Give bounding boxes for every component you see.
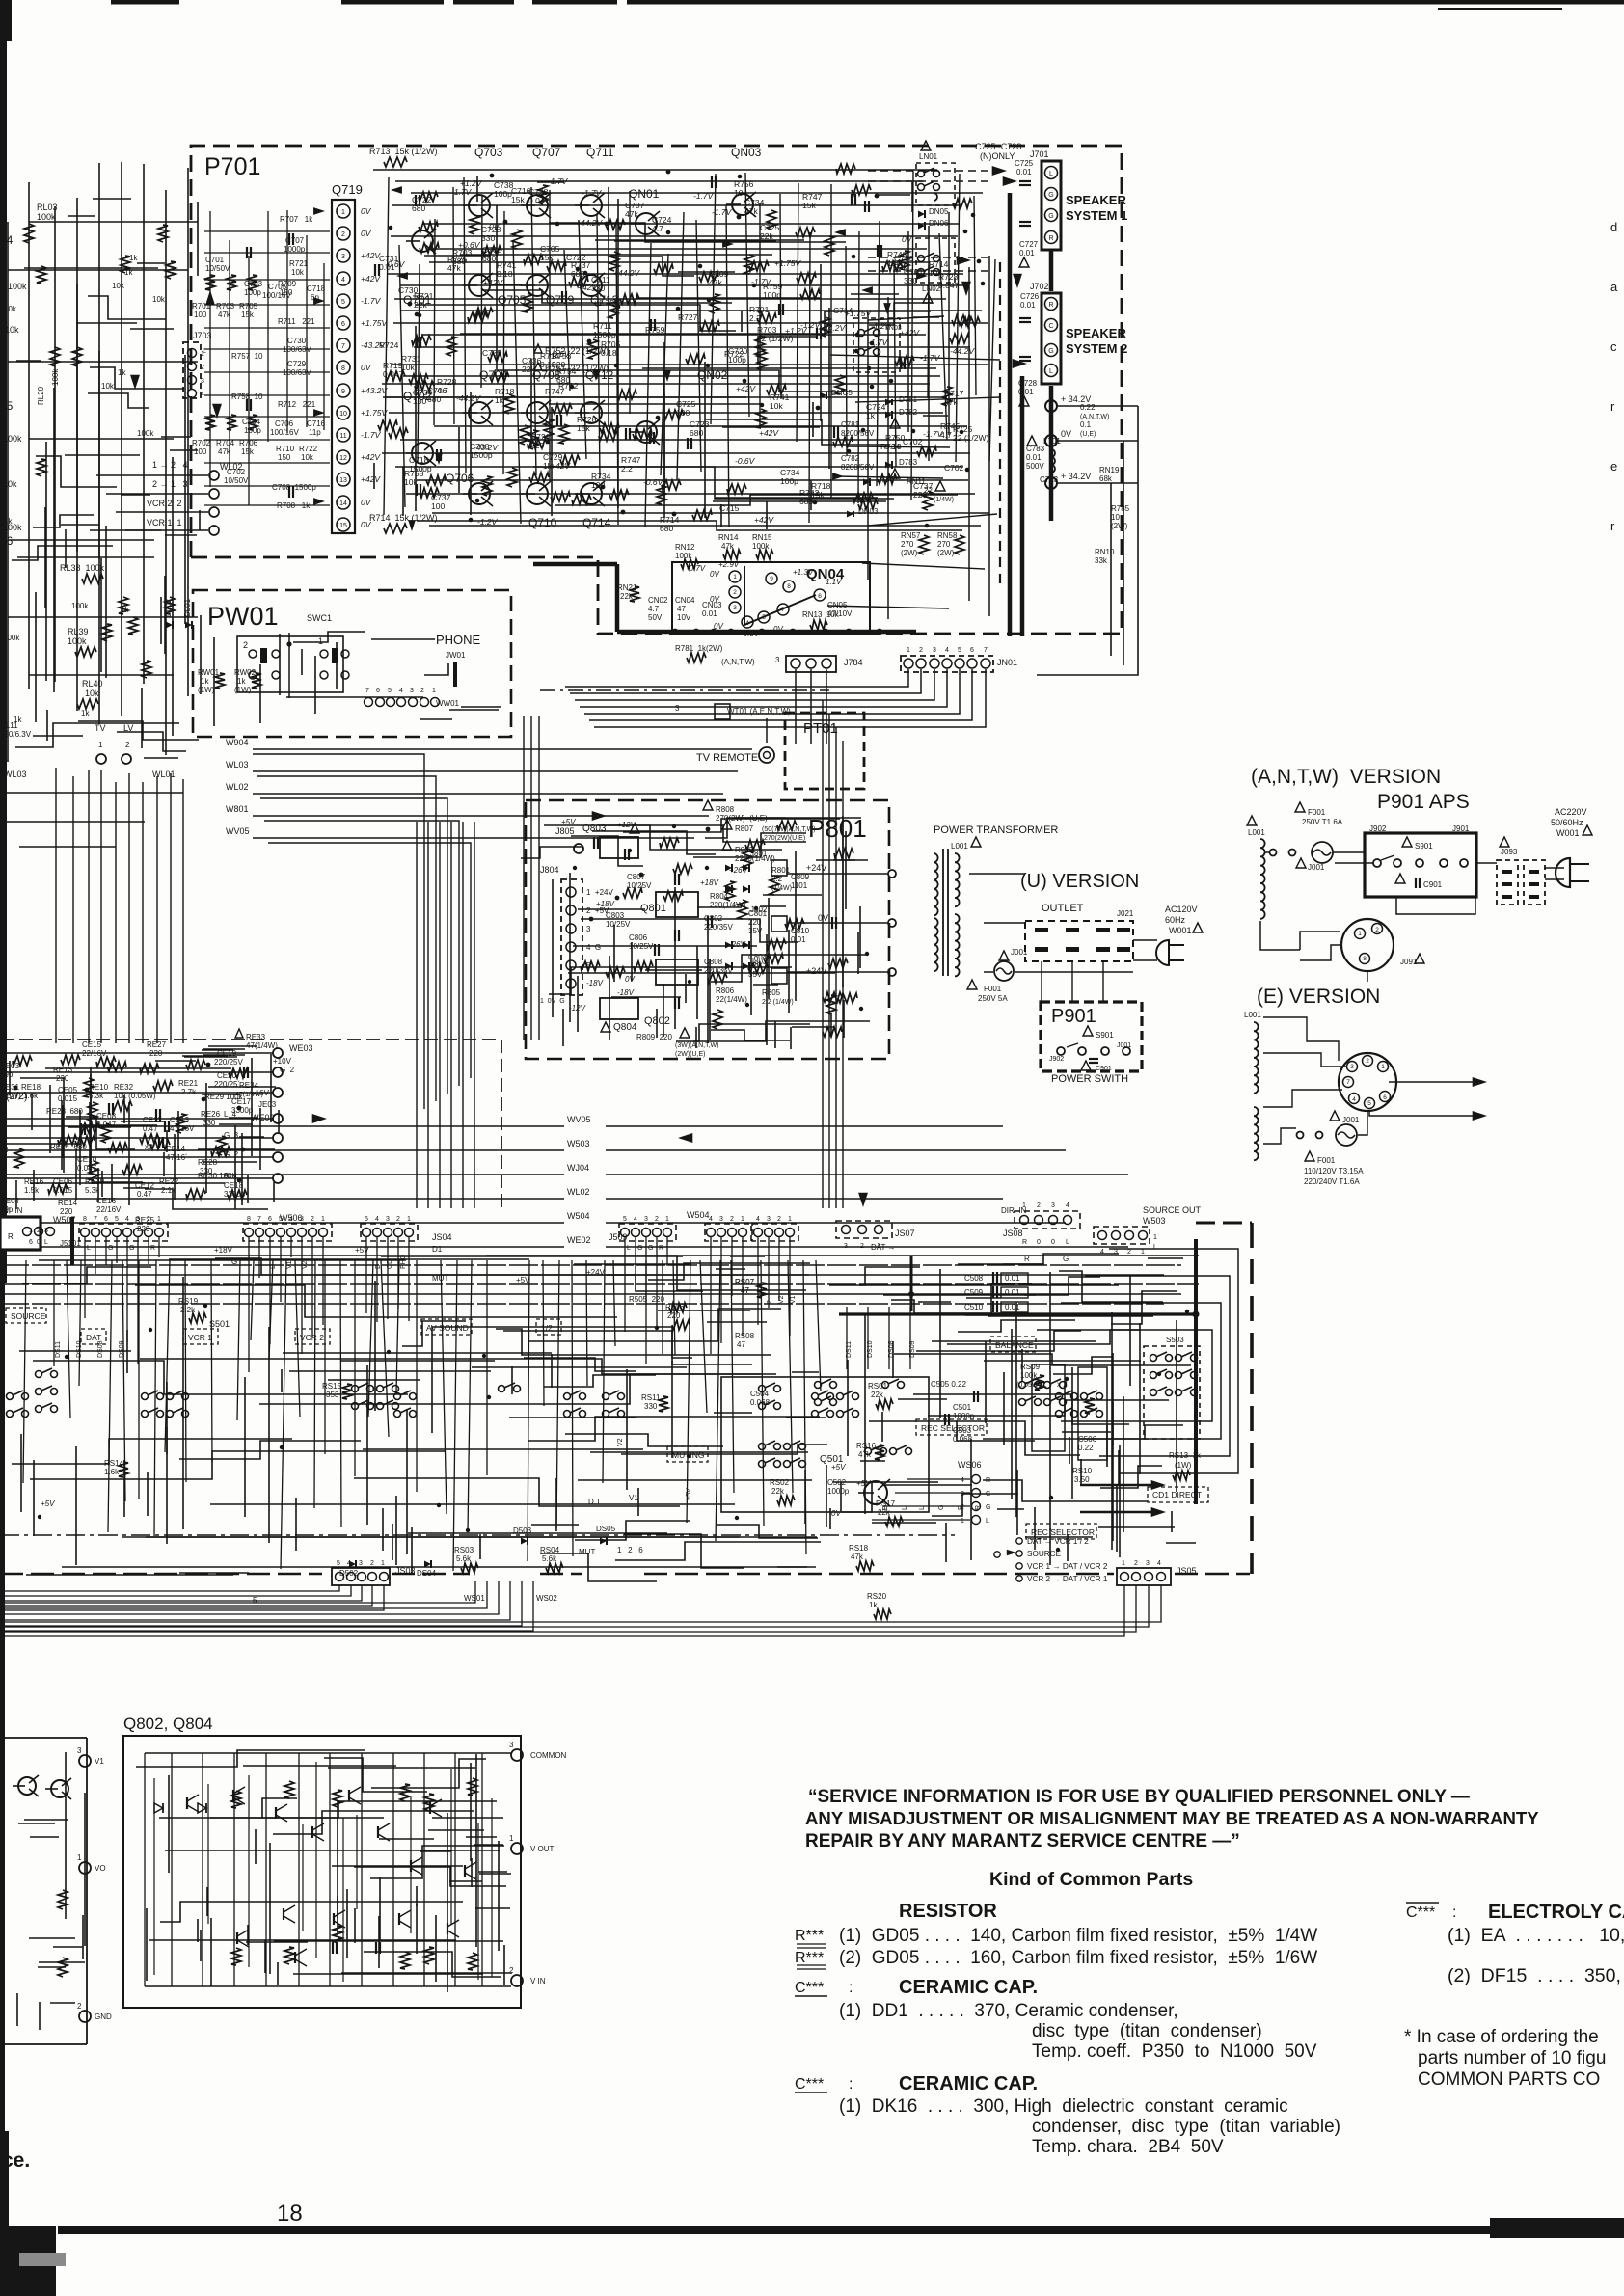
svg-text:R806: R806 [716,986,735,995]
svg-text:J804: J804 [540,865,559,875]
svg-text:WL03: WL03 [4,770,27,779]
svg-text:0V: 0V [361,498,372,507]
svg-text:-1.7V: -1.7V [582,188,603,198]
svg-text:10k: 10k [291,268,305,277]
svg-text:2: 2 [919,647,923,654]
svg-text:R809 220: R809 220 [636,1033,672,1041]
svg-text:Q802, Q804: Q802, Q804 [123,1715,213,1733]
svg-text:J001: J001 [1117,1042,1131,1049]
svg-text:6: 6 [970,647,974,654]
svg-text:4: 4 [1157,1560,1161,1567]
svg-text:2: 2 [1366,1058,1369,1065]
svg-text:DAT →: DAT → [871,1243,895,1252]
svg-text:1: 1 [407,1216,411,1223]
svg-text:WL03: WL03 [226,760,249,770]
svg-text:22k: 22k [771,1487,785,1496]
svg-text:RS10: RS10 [1072,1467,1093,1475]
svg-text:10/25V: 10/25V [627,881,652,890]
svg-text:POWER TRANSFORMER: POWER TRANSFORMER [934,824,1058,836]
svg-text:VCR 2 2: VCR 2 2 [147,499,182,508]
svg-text:7: 7 [94,1216,97,1223]
svg-text:4: 4 [1066,1202,1069,1209]
svg-text:1: 1 [509,1834,514,1843]
svg-text:3: 3 [775,656,780,664]
svg-text:6: 6 [341,321,345,328]
svg-text:1k: 1k [14,716,22,724]
svg-text:4: 4 [347,1560,351,1567]
svg-text:10k: 10k [929,268,942,278]
svg-text:7: 7 [781,607,785,613]
svg-text:F001: F001 [984,985,1002,993]
svg-text:RS20: RS20 [867,1592,887,1601]
svg-text:L001: L001 [951,842,968,851]
svg-text:L: L [1049,368,1053,375]
svg-text:RN10: RN10 [1095,548,1115,556]
svg-text:1: 1 [1153,1234,1157,1241]
svg-text:a: a [1610,280,1618,294]
svg-text:CERAMIC CAP.: CERAMIC CAP. [899,2073,1038,2094]
svg-text:WT01 (A,E,N,T,W): WT01 (A,E,N,T,W) [727,707,791,716]
svg-text:1.6k: 1.6k [104,1468,120,1476]
svg-text:Q804: Q804 [613,1022,637,1033]
svg-text:100p: 100p [244,288,261,297]
svg-text:J902: J902 [1369,824,1387,833]
svg-text:L: L [44,1239,48,1246]
svg-text:R: R [150,1245,155,1252]
svg-text:C714: C714 [833,306,853,315]
svg-text:2: 2 [777,1216,781,1223]
svg-text:0.01: 0.01 [379,262,395,272]
svg-text:ELECTROLY CA: ELECTROLY CA [1488,1902,1624,1923]
svg-text:RE27: RE27 [147,1040,167,1049]
svg-text:3: 3 [136,1216,140,1223]
svg-text:2: 2 [341,231,345,238]
svg-text:10k: 10k [3,479,17,489]
svg-text:(A,N,T,W): (A,N,T,W) [1080,414,1109,420]
svg-text:G: G [637,1245,642,1252]
svg-text:+1.75V: +1.75V [361,318,389,328]
svg-text:+42V: +42V [361,452,381,462]
svg-text:G: G [108,1245,113,1252]
svg-text:RS08: RS08 [735,1332,755,1340]
svg-text:150: 150 [280,288,293,297]
svg-text:DN03: DN03 [858,507,879,516]
svg-text:D784: D784 [876,475,895,484]
svg-text:DS08: DS08 [97,1340,104,1358]
svg-text:1k: 1k [237,677,246,686]
svg-text:3: 3 [77,1746,82,1755]
svg-text:W001: W001 [1169,926,1192,935]
svg-text:RN15: RN15 [752,533,772,542]
svg-text:0V: 0V [1061,429,1071,439]
svg-text:0: 0 [1051,1239,1055,1246]
svg-text:-1.7V: -1.7V [361,430,382,440]
svg-text:VCR 2: VCR 2 [300,1333,324,1342]
svg-text:22: 22 [924,486,933,495]
svg-text:10/25V: 10/25V [606,920,631,929]
svg-text:CN02: CN02 [648,596,668,605]
svg-text:WW01: WW01 [436,699,460,708]
svg-text:-1.7V: -1.7V [451,187,473,197]
svg-text:5: 5 [388,688,392,694]
svg-text:VO: VO [95,1864,106,1873]
svg-text:0.01: 0.01 [1016,168,1032,176]
svg-text:CE17: CE17 [231,1097,252,1106]
svg-text:47: 47 [677,605,686,613]
svg-text:R721: R721 [289,259,309,268]
svg-text:0.1: 0.1 [1080,420,1092,429]
svg-text:SWC1: SWC1 [307,613,332,623]
svg-text:WJ04: WJ04 [567,1163,589,1173]
svg-text:CN04: CN04 [675,596,695,605]
svg-text:c: c [1610,339,1617,354]
svg-text:15k: 15k [241,447,255,456]
svg-text:Temp. chara. 2B4 50V: Temp. chara. 2B4 50V [1032,2137,1224,2157]
svg-text:SYSTEM 1: SYSTEM 1 [1066,208,1127,223]
svg-text:10k: 10k [152,295,166,304]
svg-text:1: 1 [1022,1202,1026,1209]
svg-text:RS01: RS01 [868,1382,888,1391]
svg-text:R: R [1048,302,1053,309]
svg-text:RS07: RS07 [735,1278,755,1286]
svg-text:0.47: 0.47 [137,1190,152,1199]
svg-text:0V: 0V [818,913,828,923]
svg-text:F001: F001 [1308,808,1326,817]
svg-text:RN19: RN19 [1099,466,1120,474]
svg-text:QN01: QN01 [629,187,660,201]
svg-text:Q719: Q719 [332,182,363,197]
svg-text:47k: 47k [851,1553,864,1561]
svg-text:1: 1 [318,636,323,646]
svg-text:+ 34.2V: + 34.2V [1061,472,1091,481]
svg-text:JW01: JW01 [446,651,466,660]
svg-text:4: 4 [756,1216,760,1223]
svg-text:06: 06 [0,534,14,548]
svg-text:(1) GD05 . . . . 140, Carbon: (1) GD05 . . . . 140, Carbon film fixed … [839,1926,1317,1946]
svg-text:d: d [1610,220,1617,234]
svg-text:COMMON PARTS CO: COMMON PARTS CO [1418,2069,1600,2090]
svg-text:C735: C735 [482,348,502,358]
svg-text:+42V: +42V [754,515,774,525]
svg-text:C702: C702 [944,463,964,473]
svg-text:-18V: -18V [617,988,635,997]
svg-text:-1.7V: -1.7V [693,191,715,201]
svg-text:2: 2 [420,688,424,694]
svg-text:60Hz: 60Hz [1165,915,1186,925]
svg-text:R724: R724 [379,340,399,350]
svg-text:R747: R747 [545,387,565,396]
svg-text:4: 4 [945,647,949,654]
svg-text:4: 4 [745,620,749,627]
svg-text:J701: J701 [1030,149,1049,159]
svg-text:L001: L001 [1244,1011,1261,1019]
svg-text:C901: C901 [1096,1066,1112,1072]
svg-text:220/240V T1.6A: 220/240V T1.6A [1304,1177,1360,1186]
svg-text:(2W): (2W) [1111,522,1128,530]
svg-text:05: 05 [0,399,14,413]
svg-text:7: 7 [257,1216,261,1223]
svg-text:4: 4 [1100,1249,1104,1256]
svg-text:270(2W)(U,E): 270(2W)(U,E) [764,835,805,842]
svg-text:RE23 680: RE23 680 [46,1107,83,1116]
svg-text:RN14: RN14 [718,533,739,542]
svg-text:0V: 0V [361,206,372,216]
svg-text:G: G [648,1245,653,1252]
svg-text:RL38 100k: RL38 100k [60,563,105,573]
svg-text:LN01: LN01 [919,152,938,161]
svg-text:SOURCE OUT: SOURCE OUT [1143,1205,1202,1215]
svg-text:-1.7V: -1.7V [361,296,382,306]
svg-text:2: 2 [655,1216,659,1223]
svg-text:3: 3 [201,378,204,385]
svg-text:100: 100 [194,447,207,456]
svg-text:2: 2 [396,1216,400,1223]
svg-text:C501: C501 [953,1403,972,1412]
svg-text:R805: R805 [762,988,781,997]
svg-text:RL03: RL03 [37,203,58,212]
svg-text:L: L [986,1518,989,1525]
svg-text:47k: 47k [709,278,722,287]
svg-text:(1) DD1 . . . . . 370, Cera: (1) DD1 . . . . . 370, Ceramic condenser… [839,2001,1178,2021]
svg-text:Q711: Q711 [586,146,614,159]
svg-text::: : [849,1980,853,1996]
svg-text:2: 2 [1375,927,1379,933]
svg-text:8: 8 [1363,956,1367,962]
svg-text:+42V: +42V [483,278,503,287]
svg-text:P901: P901 [1051,1006,1096,1027]
svg-text:1: 1 [341,209,345,216]
svg-text:WS02: WS02 [536,1594,557,1603]
svg-text:G: G [129,1245,134,1252]
svg-text:10k: 10k [112,282,125,290]
svg-text:(2) DF15 . . . . 350,: (2) DF15 . . . . 350, [1448,1965,1621,1986]
svg-text:C505 0.22: C505 0.22 [931,1380,966,1389]
svg-text:RL39: RL39 [68,627,89,636]
svg-text:J702: J702 [1030,282,1049,291]
svg-text:14: 14 [339,500,347,507]
svg-text:CERAMIC CAP.: CERAMIC CAP. [899,1977,1038,1998]
svg-text:WV05: WV05 [567,1115,591,1124]
svg-text:22(1/4W): 22(1/4W) [716,995,747,1004]
svg-text:RW01: RW01 [198,668,220,677]
svg-text:7: 7 [1346,1079,1350,1086]
svg-text:3: 3 [644,1216,648,1223]
svg-text:4.7: 4.7 [652,224,663,233]
svg-text:1500p: 1500p [470,450,493,460]
svg-text:REC SELECTOR: REC SELECTOR [1031,1527,1095,1537]
svg-text:2: 2 [370,1560,374,1567]
svg-text:220: 220 [552,360,565,369]
svg-text:PHONE: PHONE [436,633,481,647]
svg-text:8: 8 [787,583,791,590]
svg-text:3: 3 [509,1741,514,1749]
svg-text:2.2: 2.2 [749,313,761,323]
svg-text:4.7: 4.7 [648,605,660,613]
svg-text:11: 11 [339,433,346,440]
svg-text:G: G [986,1504,990,1511]
svg-text:2: 2 [1037,1202,1041,1209]
svg-text:1 → 2 4: 1 → 2 4 [152,460,188,470]
svg-text:RN12: RN12 [675,543,695,552]
svg-text:+42V: +42V [551,461,571,471]
svg-text:-44.2V: -44.2V [950,346,975,356]
svg-text:1k: 1k [81,709,90,717]
svg-text:e: e [1610,459,1617,473]
svg-text:0.01: 0.01 [1026,453,1042,462]
svg-text:+5V: +5V [41,1499,55,1508]
svg-text:S901: S901 [1096,1031,1114,1040]
svg-text:RS13 1k: RS13 1k [1169,1451,1202,1460]
svg-text:J001: J001 [1011,948,1028,957]
svg-text:47k: 47k [625,209,638,219]
svg-text:2 → 1 3: 2 → 1 3 [152,479,188,489]
svg-text:RN11: RN11 [907,477,926,486]
svg-text:680: 680 [452,257,466,266]
svg-text:+18V: +18V [700,878,719,887]
svg-text:0V: 0V [625,975,635,984]
svg-text:3: 3 [844,1243,848,1250]
svg-text:0.01: 0.01 [1018,388,1034,396]
svg-text:WS01: WS01 [464,1594,485,1603]
svg-text:5: 5 [958,647,961,654]
svg-text:+1.2V: +1.2V [460,178,483,188]
svg-text:Q707: Q707 [532,146,561,159]
svg-text:W001: W001 [1556,828,1580,838]
svg-text:5: 5 [1367,1100,1371,1107]
svg-text:(E) VERSION: (E) VERSION [1257,986,1380,1008]
svg-text:100p: 100p [728,355,746,365]
svg-text:0V: 0V [361,363,372,372]
svg-text:3.50: 3.50 [1074,1475,1090,1484]
svg-text:WL02: WL02 [567,1187,590,1197]
svg-text:C901: C901 [1423,880,1443,889]
svg-text:15k: 15k [577,423,590,433]
svg-text:R727: R727 [678,312,698,322]
svg-text:+42V: +42V [759,428,779,438]
svg-text:5: 5 [365,1216,368,1223]
svg-text:+5V: +5V [856,1479,871,1488]
svg-text:68k: 68k [1099,474,1113,483]
svg-text:DS08: DS08 [888,1340,895,1358]
svg-text:W904: W904 [226,738,249,747]
svg-text:15k: 15k [241,311,255,319]
svg-text:DN05: DN05 [929,207,949,216]
svg-text:680: 680 [412,203,425,213]
svg-text:8: 8 [247,1216,251,1223]
svg-text:680: 680 [690,428,703,438]
svg-text:-0.6V: -0.6V [735,456,756,466]
svg-text:VCR 2 → DAT / VCR 1: VCR 2 → DAT / VCR 1 [1027,1575,1108,1583]
svg-text:J001: J001 [1342,1116,1360,1124]
svg-text:1k: 1k [118,368,126,377]
svg-text:22k: 22k [871,1391,884,1399]
svg-text:R710: R710 [276,445,295,453]
svg-text:JS08: JS08 [1003,1229,1023,1238]
svg-text:C708 1500p: C708 1500p [272,483,316,492]
svg-text:3: 3 [733,605,737,611]
svg-text:3: 3 [341,254,345,260]
svg-text:S901: S901 [1415,842,1433,851]
svg-text:R757 10: R757 10 [231,352,263,361]
svg-text::: : [849,2076,853,2093]
svg-text:DAT → VCR 1 / 2: DAT → VCR 1 / 2 [1027,1537,1089,1546]
svg-text:10/50V: 10/50V [224,476,249,485]
svg-text:C730: C730 [287,337,307,345]
svg-text:100k: 100k [37,212,56,222]
svg-text:4: 4 [709,1216,713,1223]
svg-text:ce.: ce. [2,2149,30,2172]
svg-text:JS04: JS04 [432,1232,452,1242]
svg-text:+5V: +5V [355,1246,369,1255]
svg-text:-1.7V: -1.7V [548,176,569,186]
svg-text:0.047: 0.047 [383,369,404,379]
svg-text:4: 4 [375,1216,379,1223]
svg-text:JS07: JS07 [895,1229,915,1238]
svg-text:RE14: RE14 [58,1199,78,1207]
svg-text:+2.9V: +2.9V [718,560,740,569]
svg-text:1: 1 [157,1216,161,1223]
svg-text:R722: R722 [299,445,318,453]
svg-text:F001: F001 [1317,1156,1336,1165]
svg-text:TV: TV [95,723,106,733]
svg-text:SPEAKER: SPEAKER [1066,326,1126,340]
svg-text:(2) GD05 . . . . 160, Carbon: (2) GD05 . . . . 160, Carbon film fixed … [839,1948,1317,1968]
svg-text:Q801: Q801 [640,903,666,914]
svg-text:4 G: 4 G [586,943,601,952]
svg-text:3: 3 [586,925,591,933]
svg-text:R713 15k (1/2W): R713 15k (1/2W) [369,147,438,156]
svg-text:R781 1k(2W): R781 1k(2W) [675,644,723,653]
svg-text:JE03: JE03 [258,1100,277,1109]
svg-text:100k: 100k [752,542,770,551]
svg-text:1: 1 [788,1216,792,1223]
svg-text:CE14: CE14 [166,1145,186,1153]
svg-text:DS09: DS09 [909,1340,916,1358]
svg-text:1: 1 [77,1853,82,1862]
svg-text:SPEAKER: SPEAKER [1066,193,1126,207]
svg-text:D781: D781 [899,395,918,404]
svg-text:4.7: 4.7 [940,430,952,440]
svg-text:2: 2 [243,640,248,650]
svg-text:5: 5 [623,1216,627,1223]
svg-text:13: 13 [339,477,347,484]
svg-text:3: 3 [386,1216,390,1223]
svg-text:Temp. coeff. P350 to N1000: Temp. coeff. P350 to N1000 50V [1032,2041,1317,2062]
svg-text:1k: 1k [869,1601,878,1609]
svg-text:R707 1k: R707 1k [280,215,313,224]
svg-text:100: 100 [194,311,207,319]
svg-text:1: 1 [961,1518,964,1525]
svg-text:WE02: WE02 [567,1235,591,1245]
svg-text:10k: 10k [770,401,783,411]
svg-text:100: 100 [591,480,605,490]
svg-text:4: 4 [125,1216,129,1223]
svg-text:VCR 1: VCR 1 [188,1333,212,1342]
svg-text:+5V: +5V [831,1463,846,1472]
svg-text:COMMON: COMMON [530,1751,567,1760]
svg-text:6: 6 [1383,1094,1387,1101]
svg-text:S503: S503 [1166,1336,1184,1344]
svg-text:VCR 1 1: VCR 1 1 [147,518,182,527]
svg-text:50V: 50V [648,613,663,622]
svg-text:C***: C*** [795,1980,824,1996]
svg-text:1 2 6: 1 2 6 [617,1546,643,1554]
svg-text:D1: D1 [432,1245,443,1254]
svg-text:x 2: x 2 [1057,1380,1068,1389]
svg-text:0V: 0V [902,234,913,244]
svg-text:100: 100 [431,501,445,511]
svg-text:AC120V: AC120V [1165,905,1198,914]
